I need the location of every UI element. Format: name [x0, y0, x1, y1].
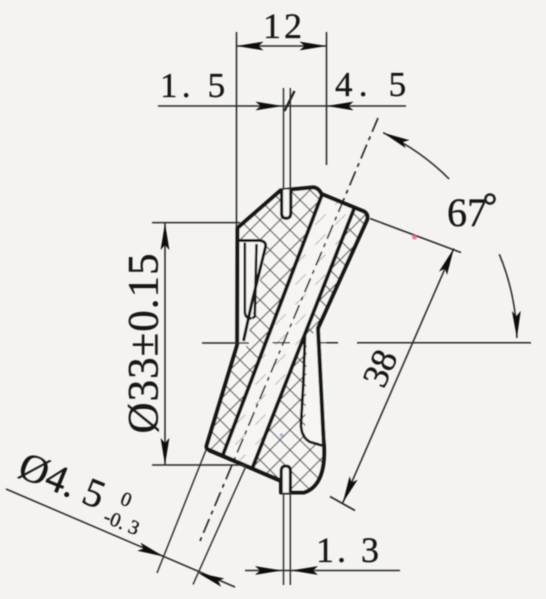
svg-text:4. 5: 4. 5 [335, 65, 412, 104]
svg-text:12: 12 [263, 6, 305, 46]
svg-text:1. 3: 1. 3 [316, 530, 382, 570]
svg-text:Ø33±0.15: Ø33±0.15 [121, 253, 168, 434]
svg-text:67: 67 [447, 190, 487, 235]
svg-text:1. 5: 1. 5 [160, 66, 229, 105]
